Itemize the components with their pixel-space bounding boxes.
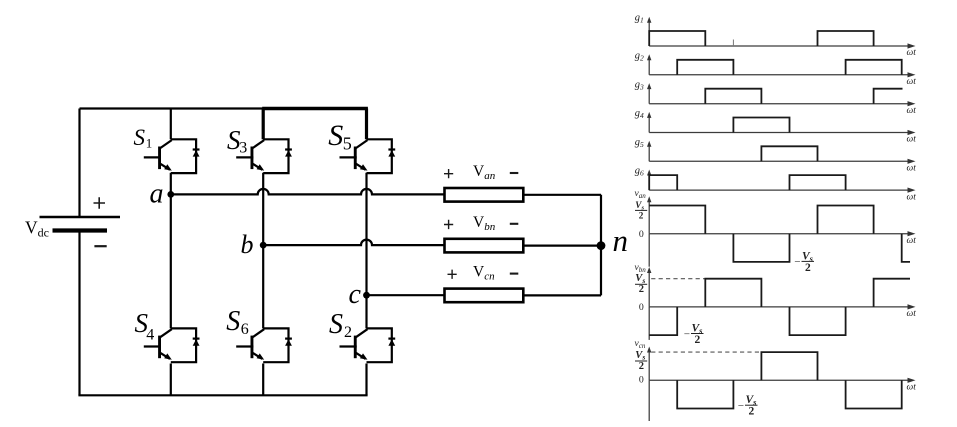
node n junction dot <box>597 241 606 250</box>
axis for vbn: horizontal time axis with arrow <box>649 306 909 308</box>
resistor load Van <box>445 188 524 202</box>
svg-text:ωt: ωt <box>907 236 917 246</box>
svg-text:a: a <box>150 179 164 210</box>
axis for g6: vertical axis with arrow <box>648 174 650 191</box>
svg-text:ωt: ωt <box>907 135 917 145</box>
waveform van <box>649 206 873 262</box>
label - sign for Vbn <box>510 223 519 225</box>
axis for g1: vertical axis with arrow <box>648 21 650 46</box>
axis for van: horizontal time axis with arrow <box>649 233 909 235</box>
waveform vbn <box>649 279 845 335</box>
axis for g4: vertical axis with arrow <box>648 116 650 133</box>
wire: leg S3 top (bus to S3 collector) <box>262 109 265 140</box>
waveform vbn partial segment at right edge <box>874 279 910 307</box>
svg-text:ωt: ωt <box>907 309 917 319</box>
wire: leg S5 top (bus to S5 collector) <box>365 109 368 140</box>
svg-text:Vs: Vs <box>635 350 645 362</box>
svg-text:−: − <box>683 328 690 340</box>
axis for g2: horizontal time axis with arrow <box>649 74 909 76</box>
label - sign for Vcn <box>510 273 519 275</box>
axis for vcn: vertical axis with arrow <box>648 351 650 381</box>
axis for g3: vertical axis with arrow <box>648 87 650 104</box>
tick mark on g1 axis at 180 deg <box>732 40 734 47</box>
axis for g2: vertical axis with arrow <box>648 58 650 75</box>
svg-text:−: − <box>737 400 744 412</box>
axis for g5: vertical axis with arrow <box>648 145 650 162</box>
wire: leg S1 emitter to node a <box>170 173 172 195</box>
wire: S2 emitter to bottom bus <box>365 364 367 396</box>
wire: Vcn right terminal to node n rail <box>523 294 601 296</box>
wire: node a to S4 collector <box>170 194 172 328</box>
svg-text:ωt: ωt <box>907 48 917 58</box>
axis for van: vertical axis lower extension <box>648 234 650 267</box>
axis for g6: horizontal time axis with arrow <box>649 189 909 191</box>
wire: phase c line (node c to resistor Vcn) <box>367 294 445 296</box>
node c junction dot <box>363 292 370 299</box>
switch S4 (transistor Q4 + diode D4) <box>144 328 200 362</box>
svg-text:0: 0 <box>639 374 644 385</box>
wire: left rail top segment <box>78 109 80 218</box>
battery - sign <box>94 245 106 247</box>
svg-text:ωt: ωt <box>907 192 917 202</box>
svg-text:ωt: ωt <box>907 383 917 393</box>
svg-text:2: 2 <box>805 262 811 274</box>
waveform g5 gating pulses <box>761 146 817 161</box>
wire: top DC bus <box>80 107 264 109</box>
waveform g4 gating pulses <box>733 118 789 133</box>
waveform g3 partial third pulse at right edge <box>874 89 903 104</box>
svg-text:b: b <box>241 230 254 259</box>
dashed Vs/2 reference line for vcn <box>651 351 761 353</box>
resistor load Vcn <box>445 289 524 303</box>
wire: leg S5 emitter to node c <box>365 173 367 295</box>
waveform g1 gating pulses <box>649 31 873 46</box>
svg-text:S: S <box>329 309 343 340</box>
svg-text:ωt: ωt <box>907 164 917 174</box>
wire: leg S1 top (bus to S1 collector) <box>170 109 172 140</box>
wire: Van right terminal to node n rail <box>523 194 601 196</box>
battery + sign <box>94 197 106 208</box>
wire: bottom DC bus <box>78 394 367 396</box>
svg-text:0: 0 <box>639 229 644 240</box>
wire: node c to S2 collector <box>365 295 367 328</box>
wire: phase b line (node b to resistor Vbn, hop over S5 leg) <box>263 240 444 245</box>
svg-text:4: 4 <box>146 327 154 344</box>
wire: S6 emitter to bottom bus <box>262 364 264 396</box>
axis for g1: horizontal time axis with arrow <box>649 45 909 47</box>
svg-text:ωt: ωt <box>907 106 917 116</box>
svg-text:3: 3 <box>239 140 247 157</box>
svg-text:n: n <box>613 223 629 258</box>
svg-text:c: c <box>349 279 362 310</box>
wire: left rail bottom segment <box>78 231 80 396</box>
resistor load Vbn <box>445 239 524 253</box>
battery Vdc positive plate <box>40 216 121 219</box>
svg-text:2: 2 <box>344 324 352 341</box>
svg-text:Vs: Vs <box>635 273 645 285</box>
axis for vcn: horizontal time axis with arrow <box>649 379 909 381</box>
waveform vcn <box>677 352 902 408</box>
wire: S4 emitter to bottom bus <box>170 364 172 396</box>
switch S6 (transistor Q6 + diode D6) <box>236 328 292 362</box>
wire: phase a line (node a to resistor Van, hops over S3,S5 legs) <box>171 189 445 194</box>
switch S3 (transistor Q3 + diode D3) <box>236 139 292 173</box>
label + sign for Vbn <box>444 220 453 229</box>
dashed Vs/2 reference line for vbn <box>651 278 705 280</box>
label + sign for Vcn <box>448 270 457 279</box>
wire: node b to S6 collector <box>262 245 264 328</box>
switch S2 (transistor Q2 + diode D2) <box>340 328 396 362</box>
waveform g2 gating pulses <box>677 60 902 75</box>
svg-text:1: 1 <box>146 135 153 150</box>
wire: leg S3 emitter to node b <box>262 173 264 245</box>
svg-text:2: 2 <box>639 361 644 372</box>
axis for vcn: vertical axis lower extension <box>648 380 650 421</box>
label - sign for Van <box>510 172 519 174</box>
node b junction dot <box>260 242 267 249</box>
svg-text:S: S <box>134 125 146 150</box>
axis for vbn: vertical axis with arrow <box>648 271 650 307</box>
wire: node n vertical rail <box>600 195 602 296</box>
switch S1 (transistor Q1 + diode D1) <box>144 139 200 173</box>
svg-text:2: 2 <box>695 334 701 346</box>
axis for vbn: vertical axis lower extension <box>648 307 650 340</box>
battery Vdc negative plate <box>53 228 108 232</box>
svg-text:−: − <box>794 256 801 268</box>
waveform van partial segment at right edge <box>902 234 910 262</box>
svg-text:2: 2 <box>749 406 755 418</box>
svg-text:S: S <box>328 119 343 152</box>
node a junction dot <box>167 191 174 198</box>
wire: Vbn right terminal to node n rail <box>523 245 601 247</box>
waveform g6 gating pulses <box>649 175 845 190</box>
switch S5 (transistor Q5 + diode D5) <box>340 139 396 173</box>
svg-text:2: 2 <box>639 284 644 295</box>
svg-text:6: 6 <box>241 321 249 338</box>
svg-text:S: S <box>226 306 240 337</box>
axis for g3: horizontal time axis with arrow <box>649 103 909 105</box>
axis for g4: horizontal time axis with arrow <box>649 132 909 134</box>
svg-text:5: 5 <box>343 133 352 153</box>
svg-text:2: 2 <box>639 210 644 220</box>
svg-text:ωt: ωt <box>907 77 917 87</box>
axis for van: vertical axis with arrow <box>648 200 650 234</box>
wire: top DC bus thick segment <box>262 107 368 110</box>
svg-text:0: 0 <box>639 302 644 313</box>
waveform g3 gating pulses <box>705 89 761 104</box>
axis for g5: horizontal time axis with arrow <box>649 160 909 162</box>
label + sign for Van <box>444 169 453 178</box>
